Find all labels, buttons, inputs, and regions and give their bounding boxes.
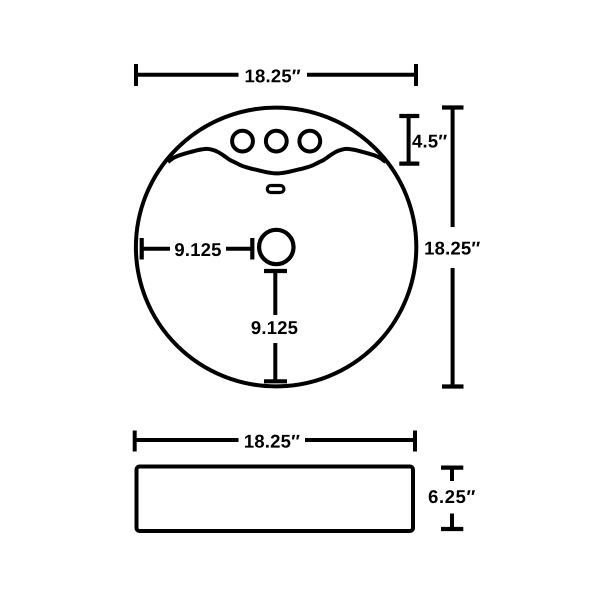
faucet deck wave curve <box>168 149 386 174</box>
dimension 9.125 horizontal line right segment <box>226 247 251 251</box>
dimension 4.5 label <box>412 135 447 148</box>
side view body rectangle <box>137 467 414 532</box>
dimension bottom 18.25 right tick <box>413 431 417 452</box>
faucet hole left <box>232 131 253 152</box>
overflow slot <box>267 186 284 193</box>
dimension right 18.25 top tick <box>442 105 464 109</box>
dimension 9.125 vertical line top segment <box>273 272 277 315</box>
dimension right 18.25 line bottom segment <box>451 268 455 386</box>
dimension 6.25 bottom tick <box>441 527 463 531</box>
dimension 9.125 horizontal right tick <box>250 238 254 260</box>
dimension bottom 18.25 label <box>245 435 300 448</box>
dimension right 18.25 label <box>425 242 480 255</box>
dimension top 18.25 line right segment <box>307 73 415 77</box>
dimension bottom 18.25 line left segment <box>136 438 239 442</box>
dimension 9.125 horizontal line left segment <box>143 247 170 251</box>
dimension 9.125 vertical bottom tick <box>264 379 287 383</box>
dimension top 18.25 line left segment <box>137 73 239 77</box>
dimension 6.25 bottom stub <box>450 514 454 528</box>
sink rim circle <box>136 108 416 387</box>
dimension right 18.25 bottom tick <box>442 384 464 388</box>
dimension 9.125 horizontal label <box>175 243 221 256</box>
dimension 6.25 top stub <box>450 469 454 481</box>
drain hole <box>259 230 293 264</box>
dimension top 18.25 left tick <box>134 64 138 86</box>
dimension 4.5 line <box>407 117 411 163</box>
dimension 9.125 vertical top tick <box>264 269 287 273</box>
dimension right 18.25 line top segment <box>451 109 455 228</box>
dimension 4.5 top tick <box>399 114 419 118</box>
dimension top 18.25 right tick <box>414 64 418 86</box>
dimension bottom 18.25 left tick <box>133 431 137 452</box>
dimension bottom 18.25 line right segment <box>305 438 414 442</box>
dimension 4.5 bottom tick <box>399 162 419 166</box>
dimension 6.25 top tick <box>441 466 463 470</box>
dimension 9.125 horizontal left tick <box>140 238 144 260</box>
dimension top 18.25 label <box>246 69 301 82</box>
dimension 9.125 vertical label <box>251 321 297 334</box>
dimension 6.25 label <box>429 490 475 503</box>
dimension 9.125 vertical line bottom segment <box>273 343 277 380</box>
faucet hole right <box>299 131 320 152</box>
faucet hole center <box>266 131 287 152</box>
